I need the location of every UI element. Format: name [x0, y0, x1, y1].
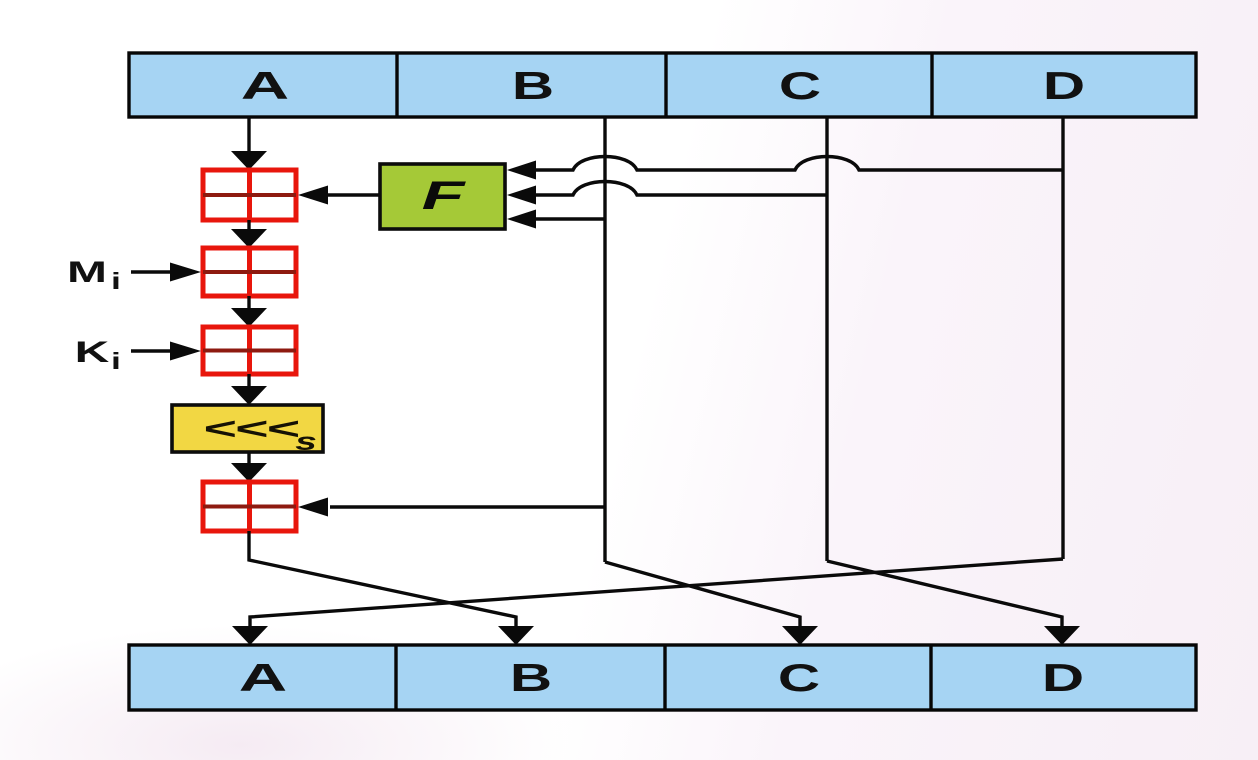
- wire rotate to adder 4: [247, 452, 250, 464]
- wire D to F top input (hops over C and B): [536, 157, 1063, 171]
- divider bottom B|C: [663, 645, 666, 710]
- adder 3 (boxplus): [203, 327, 296, 374]
- wire top B to bottom C: [605, 562, 800, 627]
- svg-text:A: A: [241, 63, 289, 107]
- wire B to adder 4: [330, 505, 605, 508]
- svg-text:C: C: [779, 64, 821, 108]
- svg-text:A: A: [239, 655, 287, 699]
- wire adder4 result to bottom B: [249, 531, 516, 627]
- svg-text:s: s: [295, 427, 317, 455]
- wire C to F middle input (hops over B): [536, 182, 827, 196]
- svg-text:i: i: [111, 349, 121, 374]
- adder 2 (boxplus): [203, 248, 296, 296]
- divider bottom C|D: [929, 645, 932, 710]
- divider top C|D: [930, 53, 933, 117]
- wire D column vertical: [1061, 117, 1064, 559]
- svg-text:M: M: [67, 256, 107, 289]
- wire top D to bottom A (long cross): [250, 559, 1063, 627]
- wire Mi to adder 2: [131, 270, 172, 273]
- left-rotate box <<<s: [172, 405, 323, 455]
- register bar top (A B C D): [129, 53, 1196, 117]
- wire adder2 to adder3: [247, 296, 250, 309]
- wire top C to bottom D: [827, 561, 1062, 627]
- svg-text:K: K: [75, 336, 110, 369]
- adder 1 (boxplus): [203, 170, 296, 220]
- wire B to F bottom input: [536, 217, 605, 220]
- svg-text:i: i: [111, 269, 121, 294]
- divider top A|B: [395, 53, 398, 117]
- svg-text:D: D: [1042, 656, 1084, 700]
- divider top B|C: [664, 53, 667, 117]
- divider bottom A|B: [394, 645, 397, 710]
- svg-text:<<<: <<<: [203, 411, 299, 446]
- adder 4 (boxplus): [203, 482, 296, 531]
- svg-text:B: B: [510, 656, 552, 700]
- wire adder1 to adder2: [247, 220, 250, 230]
- wire adder3 to rotate box: [247, 374, 250, 387]
- wire F output to adder 1: [328, 193, 380, 196]
- wire C column vertical: [825, 117, 828, 561]
- svg-text:F: F: [422, 173, 467, 218]
- register bar bottom (A B C D): [129, 645, 1196, 710]
- wire Ki to adder 3: [131, 349, 172, 352]
- function box F: [380, 164, 505, 229]
- svg-text:D: D: [1043, 64, 1085, 108]
- wire B column vertical: [603, 117, 606, 562]
- wire A down to adder 1: [247, 117, 250, 152]
- svg-text:C: C: [778, 656, 820, 700]
- svg-text:B: B: [512, 64, 554, 108]
